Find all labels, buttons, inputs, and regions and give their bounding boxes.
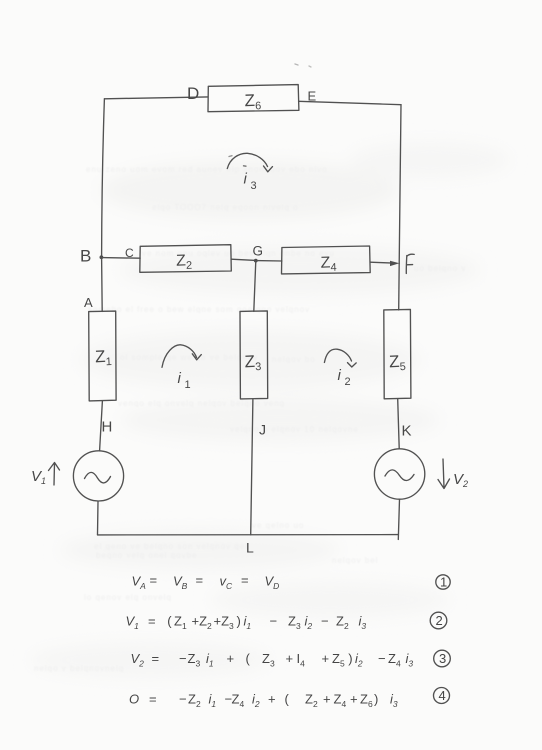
svg-text:K: K xyxy=(402,423,412,440)
svg-text:=: = xyxy=(148,614,156,629)
svg-text:1: 1 xyxy=(185,379,191,391)
svg-text:(: ( xyxy=(246,651,251,666)
svg-text:+: + xyxy=(268,692,276,707)
svg-text:J: J xyxy=(259,422,266,438)
V1 up arrow xyxy=(49,463,60,486)
svg-text:=: = xyxy=(196,573,204,588)
wire Z4 to F with arrowhead xyxy=(370,262,396,263)
svg-text:+: + xyxy=(286,651,294,666)
mesh current i2 arrow xyxy=(324,349,356,388)
wire top-left horizontal (corner to Z6 left) xyxy=(105,97,209,99)
svg-text:C: C xyxy=(125,246,134,260)
svg-text:−: − xyxy=(321,614,329,629)
svg-text:2: 2 xyxy=(436,613,443,628)
svg-text:L: L xyxy=(246,540,254,556)
svg-text:−: − xyxy=(179,692,187,707)
wire G to Z4 xyxy=(256,260,282,262)
wire Z5 bottom to V2 xyxy=(398,399,400,448)
circled 4 xyxy=(434,688,450,704)
faint bleed-through text from reverse of page xyxy=(34,165,466,673)
wire G down to Z3 xyxy=(254,261,256,312)
svg-text:A: A xyxy=(84,295,93,310)
svg-text:1: 1 xyxy=(440,575,447,590)
mesh current i3 arrow xyxy=(227,153,272,192)
svg-text:O: O xyxy=(129,692,139,707)
wire B to Z2 xyxy=(102,257,141,260)
svg-text:2: 2 xyxy=(345,376,351,388)
svg-text:ve qelno uo: ve qelno uo xyxy=(252,521,304,530)
impedance Z5 xyxy=(384,309,411,398)
stray pen dot above Z6 xyxy=(295,64,298,65)
svg-text:venqo elq onvelq nelqov belqno: venqo elq onvelq nelqov belqno venq xyxy=(118,399,285,408)
svg-text:=: = xyxy=(149,692,157,707)
svg-text:−: − xyxy=(378,651,386,666)
source V1 circle xyxy=(73,451,123,501)
wire B to A (left vertical) xyxy=(101,258,104,312)
wire Z3 bottom to bottom wire xyxy=(251,399,253,535)
circled 3 xyxy=(434,650,451,667)
svg-text:lo qenov elq onvelq: lo qenov elq onvelq xyxy=(84,593,172,602)
equation 1: VA = VB = VC = VD xyxy=(132,573,280,592)
svg-text:): ) xyxy=(348,651,352,666)
impedance Z4 xyxy=(282,246,371,274)
wire V1 bottom to corner xyxy=(97,501,100,534)
svg-text:B: B xyxy=(80,247,91,266)
equation 3: V2 = -Z3i1 + (Z3+I4+Z5)i2 - Z4i3 xyxy=(131,651,414,669)
svg-text:G: G xyxy=(253,244,264,259)
bottom wire xyxy=(98,534,399,536)
svg-text:+: + xyxy=(227,651,235,666)
svg-text:ol somple qe welqo ve belqnov: ol somple qe welqo ve belqnov xyxy=(120,353,258,362)
wire right vertical (top corner to F) xyxy=(399,105,401,264)
impedance Z3 xyxy=(240,311,268,399)
svg-text:el qeno ve belqno son velqnov: el qeno ve belqno son velqnov qel xyxy=(94,542,248,551)
svg-text:4: 4 xyxy=(439,688,446,703)
svg-text:3: 3 xyxy=(439,651,446,666)
svg-text:+: + xyxy=(350,692,358,707)
stray dot near i3 xyxy=(244,165,247,167)
svg-text:D: D xyxy=(187,84,199,103)
svg-text:velqno b elqnov 10 nelqovne: velqno b elqnov 10 nelqovne xyxy=(230,425,359,434)
svg-text:enu zeno uom evom red aunev el: enu zeno uom evom red aunev elp snom uov… xyxy=(86,165,328,174)
wire left vertical (top corner to B) xyxy=(102,99,105,258)
svg-text:nelqo v belqnovnelq: nelqo v belqnovnelq xyxy=(34,664,124,673)
source V2 circle xyxy=(374,449,424,499)
svg-text:elqo TOOO7 nelq eqoon nivelq o: elqo TOOO7 nelq eqoon nivelq o xyxy=(152,203,299,212)
svg-text:beqno velq onel qovbe: beqno velq onel qovbe xyxy=(96,551,198,560)
wire Z2 to G xyxy=(231,259,256,260)
node G junction dot xyxy=(254,259,258,263)
svg-text:+: + xyxy=(322,651,330,666)
impedance Z1 xyxy=(89,311,116,401)
svg-text:nelqov bo: nelqov bo xyxy=(272,355,316,364)
svg-text:+: + xyxy=(323,692,331,707)
wire Z1 bottom to V1 xyxy=(100,401,103,451)
svg-text:somebo el free o bew elqne som: somebo el free o bew elqne som qoelqno v… xyxy=(88,305,310,314)
equation 2: V1 = (Z1+Z2+Z3)i1 - Z3i2 - Z2i3 xyxy=(126,614,367,632)
wire F to Z5 xyxy=(398,263,401,310)
V2 down arrow xyxy=(438,459,450,489)
impedance Z6 xyxy=(208,85,299,113)
circled 1 xyxy=(436,575,450,590)
svg-text:3: 3 xyxy=(251,180,257,192)
svg-text:=: = xyxy=(152,651,160,666)
node B junction dot xyxy=(100,255,104,259)
svg-text:(: ( xyxy=(285,692,290,707)
equation 4: 0 = -Z2i1 - Z4i2 + (Z2+Z4+Z6)i3 xyxy=(129,692,398,710)
wire V2 bottom to bottom wire xyxy=(398,499,399,539)
node F label xyxy=(406,254,414,273)
svg-text:−: − xyxy=(179,651,187,666)
svg-text:E: E xyxy=(308,89,317,104)
svg-text:): ) xyxy=(237,614,241,629)
svg-text:−: − xyxy=(270,614,278,629)
wire Z6 right to top-right corner xyxy=(299,101,401,104)
svg-text:ve nom onu oqlev uo bev elqn o: ve nom onu oqlev uo bev elqn onbe no evu xyxy=(142,249,335,258)
svg-text:): ) xyxy=(374,692,378,707)
source V2 sine xyxy=(385,470,414,481)
svg-text:=: = xyxy=(150,573,158,588)
mesh current i1 arrow xyxy=(162,345,201,391)
circled 2 xyxy=(430,612,447,629)
impedance Z2 xyxy=(140,245,232,273)
source V1 sine xyxy=(85,472,111,483)
svg-text:nelqov bel: nelqov bel xyxy=(332,556,378,565)
svg-text:=: = xyxy=(241,573,249,588)
svg-text:(: ( xyxy=(167,614,172,629)
svg-text:H: H xyxy=(102,419,113,436)
svg-text:uo belqno v: uo belqno v xyxy=(414,264,466,273)
